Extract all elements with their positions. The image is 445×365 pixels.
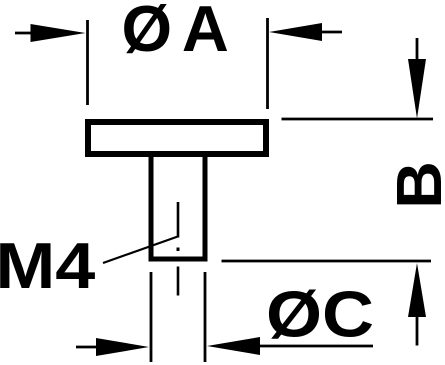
dimension ØA right arrow tail xyxy=(318,31,342,34)
svg-text:ØA: ØA xyxy=(122,0,239,65)
dimension ØA left arrow tail xyxy=(15,32,42,35)
knob shaft outline xyxy=(151,154,205,259)
svg-text:M4: M4 xyxy=(0,229,95,302)
svg-text:B: B xyxy=(383,161,445,209)
dimension ØA right extension line xyxy=(266,18,269,109)
centerline dot xyxy=(177,248,180,252)
dimension ØC left extension line xyxy=(150,272,153,362)
dimension ØC right arrow tail xyxy=(256,345,373,348)
centerline dash upper xyxy=(177,202,180,238)
knob head outline xyxy=(88,122,266,154)
dimension ØA right arrowhead xyxy=(269,23,322,41)
dimension B up arrow tail xyxy=(416,315,419,346)
M4 leader line xyxy=(103,237,178,264)
dimension ØC right arrowhead xyxy=(207,337,260,355)
dimension ØC left arrow tail xyxy=(76,346,100,349)
dimension ØC left arrowhead xyxy=(96,338,149,356)
dimension B down arrowhead xyxy=(408,59,426,119)
dimension ØC right extension line xyxy=(204,272,207,362)
dimension ØA left arrowhead xyxy=(31,24,86,42)
dimension B down arrow tail xyxy=(416,38,419,61)
dimension ØA left extension line xyxy=(86,20,89,105)
svg-text:ØC: ØC xyxy=(266,278,374,351)
centerline dash lower xyxy=(177,267,180,296)
dimension B top reference line xyxy=(282,118,434,121)
dimension B up arrowhead xyxy=(408,263,426,317)
dimension B bottom reference line xyxy=(222,260,432,263)
